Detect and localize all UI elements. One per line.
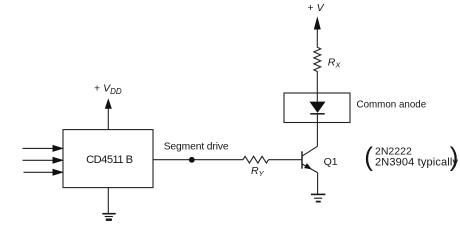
wire: LED anode up to RX	[316, 74, 318, 102]
svg-text:RX: RX	[328, 57, 342, 70]
LED diode D1	[310, 102, 326, 114]
ground (Q1 emitter)	[311, 194, 326, 201]
input arrow 1 (BCD input)	[23, 145, 65, 152]
svg-text:Segment drive: Segment drive	[164, 142, 229, 153]
IC CD4511 B	[63, 130, 153, 188]
svg-text:+ VDD: + VDD	[94, 83, 122, 97]
power arrow +V	[314, 16, 321, 29]
resistor RY	[243, 156, 269, 163]
svg-text:Common anode: Common anode	[357, 100, 427, 111]
svg-text:CD4511 B: CD4511 B	[86, 154, 132, 166]
input arrow 3 (BCD input)	[24, 169, 65, 176]
wire: CD4511 bottom to ground	[107, 188, 109, 214]
input arrow 2 (BCD input)	[23, 157, 65, 164]
transistor Q1 (NPN)	[302, 146, 318, 172]
node: segment drive junction	[189, 157, 195, 163]
wire: Q1 emitter down to ground	[317, 173, 319, 195]
wire: RY to Q1 base	[269, 159, 303, 161]
annotation: transistor type choices	[364, 142, 458, 172]
wire: +VDD down to CD4511 top	[107, 106, 109, 130]
svg-text:Q1: Q1	[324, 156, 338, 168]
wire: RX up to +V arrow	[316, 24, 318, 45]
wire: segment drive from CD4511 to RY	[153, 159, 243, 161]
ground (CD4511)	[102, 214, 115, 220]
LED box (common-anode display segment)	[284, 93, 350, 123]
svg-text:+ V: + V	[308, 2, 325, 14]
svg-text:RY: RY	[251, 165, 265, 178]
wire: collector up into LED box	[316, 114, 318, 146]
resistor RX	[314, 45, 321, 73]
svg-text:2N3904 typically: 2N3904 typically	[375, 156, 458, 168]
power arrow +VDD	[105, 98, 112, 109]
svg-text:(: (	[364, 142, 373, 172]
